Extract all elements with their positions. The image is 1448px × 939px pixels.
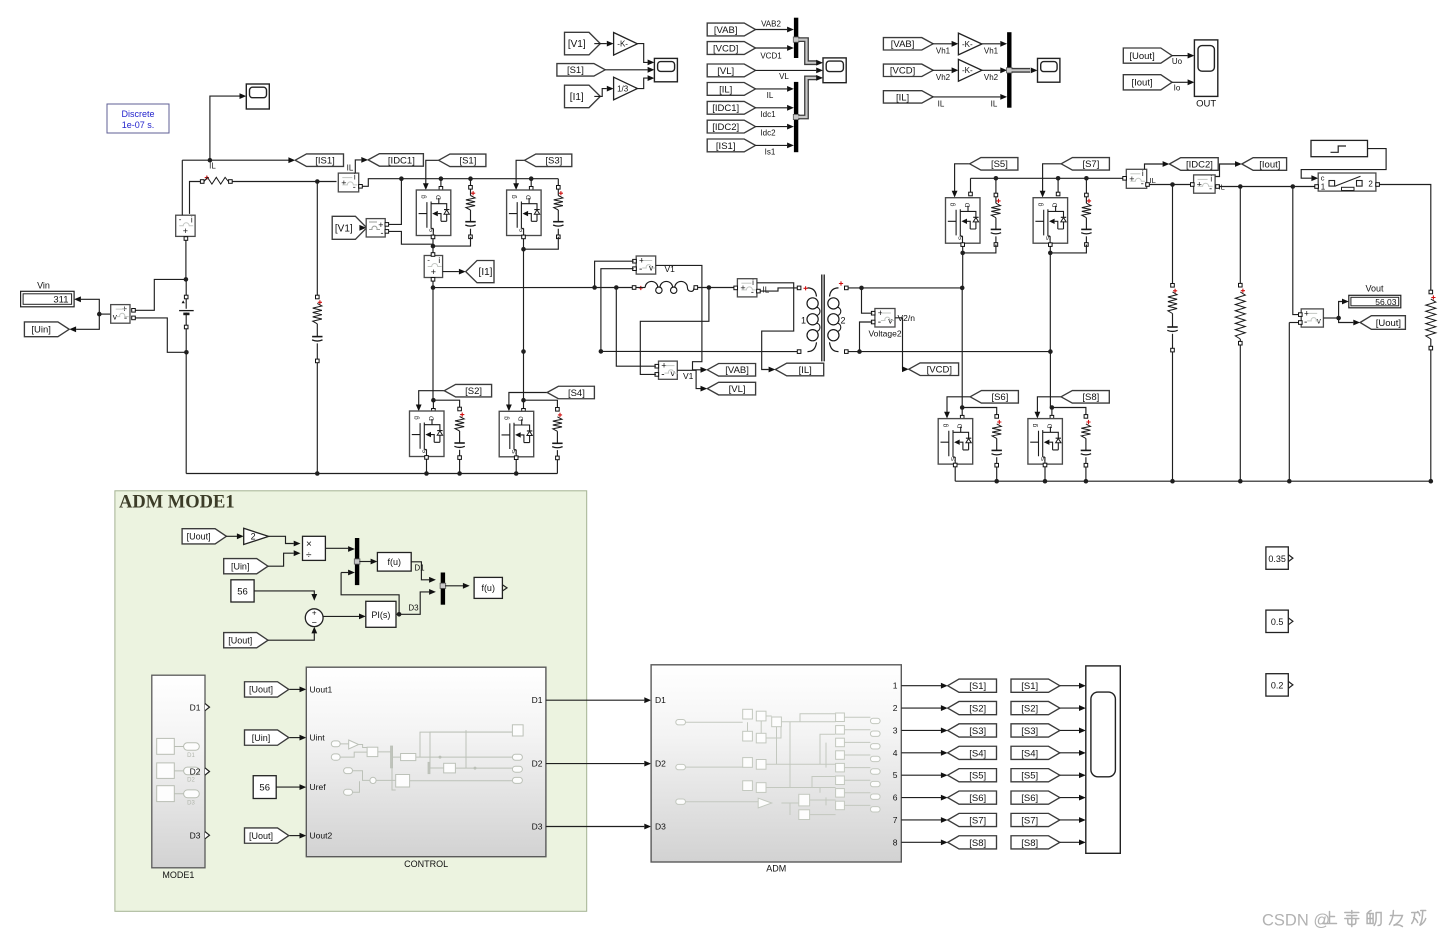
svg-text:D1: D1 xyxy=(190,702,201,712)
junction S1 source node A1 xyxy=(431,244,436,249)
junction S4 source bottom rail xyxy=(514,471,519,476)
wire node D down to S8 xyxy=(1049,352,1051,408)
svg-text:i: i xyxy=(191,216,193,225)
goto tag [S3] -> gate xyxy=(525,154,572,167)
from tag [S6] (to scope) xyxy=(1011,791,1060,804)
svg-text:[IL]: [IL] xyxy=(896,92,909,103)
svg-text:[Iout]: [Iout] xyxy=(1259,159,1280,170)
junction final load bottom xyxy=(1429,479,1434,484)
svg-text:[S2]: [S2] xyxy=(969,704,986,715)
wire Vout + tap xyxy=(1293,187,1299,315)
wire IL signal to tag xyxy=(757,283,794,370)
svg-text:[IDC1]: [IDC1] xyxy=(388,155,415,166)
svg-text:-: - xyxy=(381,228,384,238)
svg-text:7: 7 xyxy=(893,815,898,825)
svg-text:2: 2 xyxy=(1368,179,1373,188)
goto tag [IDC1] xyxy=(368,154,423,167)
svg-text:IL: IL xyxy=(938,100,945,109)
wire input rail to IDC1 meter xyxy=(232,181,336,183)
svg-text:[S3]: [S3] xyxy=(1021,726,1038,737)
wire S8 gate xyxy=(1037,397,1061,414)
goto tag [S4] (from ADM) xyxy=(948,746,997,759)
junction S7 source node xyxy=(1048,251,1053,256)
wire V1 - tap to node B rail xyxy=(601,269,634,352)
snubber RC S3 xyxy=(557,179,559,235)
junction node C xyxy=(960,286,965,291)
svg-text:[S5]: [S5] xyxy=(1021,771,1038,782)
display Vout (56.03) xyxy=(1349,295,1401,308)
wire ADM out 3 to goto [S3] xyxy=(901,729,941,731)
wire S5 gate xyxy=(955,164,970,193)
wire S8 source to output bottom rail xyxy=(1044,465,1046,481)
mux Mux3 (Vh1,Vh2,IL) xyxy=(1007,32,1013,108)
junction Uin signal xyxy=(97,312,102,317)
wire IS1 block to input resistor xyxy=(190,182,201,214)
wire S5 source to node C xyxy=(962,244,964,288)
svg-text:g: g xyxy=(420,195,427,199)
svg-text:[S8]: [S8] xyxy=(969,838,986,849)
gain -K- (V1) xyxy=(614,33,638,56)
svg-text:D1: D1 xyxy=(532,695,543,705)
svg-text:+: + xyxy=(1129,174,1134,184)
goto tag [S7] -> gate xyxy=(1061,158,1109,171)
MOSFET S8 xyxy=(1028,419,1063,465)
wire S4 source to bottom rail xyxy=(515,458,517,474)
goto tag [S3] (from ADM) xyxy=(948,724,997,737)
wire mux to f(u) xyxy=(359,561,371,563)
svg-text:-: - xyxy=(1304,317,1307,328)
wire input bottom rail xyxy=(186,473,557,475)
wire IL to mux xyxy=(932,96,1000,98)
goto tag [S2] (from ADM) xyxy=(948,701,997,714)
svg-text:0.35: 0.35 xyxy=(1268,554,1286,564)
step block (breaker control) xyxy=(1311,140,1368,156)
wire IS1 signal to Scope1 xyxy=(210,96,240,160)
dc source battery xyxy=(179,279,194,352)
svg-text:[S6]: [S6] xyxy=(969,793,986,804)
svg-text:MODE1: MODE1 xyxy=(162,870,194,880)
from tag [VAB] (Vh group) xyxy=(883,38,933,51)
from tag [Uin] (product) xyxy=(224,559,268,574)
wire S1 source to I1 meter xyxy=(432,236,434,254)
svg-text:+: + xyxy=(341,178,346,188)
from tag [VL] (mux group) xyxy=(707,64,755,77)
wire [IDC1] to mux xyxy=(755,107,787,109)
bus wire Mux3 to Scope3 xyxy=(1012,68,1031,73)
svg-text:[S5]: [S5] xyxy=(969,771,986,782)
MOSFET S2 xyxy=(410,411,445,457)
svg-text:f(u): f(u) xyxy=(481,583,495,593)
svg-text:Vh2: Vh2 xyxy=(936,73,951,82)
wire gain to scope in1 xyxy=(637,44,647,63)
snubber RC S6 xyxy=(995,415,999,419)
junction Voltage2 + tap xyxy=(859,286,864,291)
svg-text:[S6]: [S6] xyxy=(1021,793,1038,804)
junction Vout signal xyxy=(1336,316,1341,321)
current measurement IDC1/IL block xyxy=(338,173,358,193)
svg-text:V1: V1 xyxy=(683,371,694,381)
svg-text:-K-: -K- xyxy=(962,66,973,75)
svg-text:i: i xyxy=(1142,169,1144,178)
svg-text:Voltage2: Voltage2 xyxy=(868,329,901,339)
svg-text:IL: IL xyxy=(209,162,216,171)
from tag [S2] (to scope) xyxy=(1011,701,1060,714)
from tag [S8] (to scope) xyxy=(1011,836,1060,849)
wire Uin to CONTROL Uint xyxy=(290,737,300,739)
goto tag [S8] (from ADM) xyxy=(948,836,997,849)
gain 1/3 (I1) xyxy=(614,77,638,100)
svg-text:VL: VL xyxy=(779,72,789,81)
wire S4 gate xyxy=(509,393,547,407)
svg-text:D3: D3 xyxy=(408,604,419,613)
from tag [VCD] (Vh group) xyxy=(883,64,933,77)
constant 0.35 xyxy=(1266,547,1293,569)
wire IS1 block to battery xyxy=(185,237,187,280)
resistor R load (filter) xyxy=(1239,187,1241,284)
junction Vout - bottom xyxy=(1287,479,1292,484)
subsystem ADM xyxy=(651,665,901,862)
resistor R input series xyxy=(200,180,204,184)
svg-text:[I1]: [I1] xyxy=(570,92,584,103)
wire S2 gate xyxy=(419,391,445,407)
junction node A xyxy=(431,285,436,290)
svg-text:Vin: Vin xyxy=(37,281,50,291)
svg-text:56: 56 xyxy=(259,783,270,794)
voltage measurement V1 (VAB) xyxy=(636,256,656,276)
junction Voltage2 - tap xyxy=(857,349,862,354)
svg-text:PI(s): PI(s) xyxy=(371,610,390,620)
wire Iout to breaker xyxy=(1217,186,1315,188)
current measurement I1 xyxy=(424,256,442,278)
area box ADM MODE1 xyxy=(115,491,587,912)
from tag [Uin] -> Uint xyxy=(245,730,289,745)
svg-text:IL: IL xyxy=(763,286,770,295)
wire IS1 block to signal rail xyxy=(181,160,183,215)
svg-text:i: i xyxy=(752,278,754,287)
svg-text:[S5]: [S5] xyxy=(991,159,1008,170)
wire D rail (secondary bottom) xyxy=(848,351,1050,353)
wire S1 to scope in2 xyxy=(605,69,647,71)
wire voltage to Vin display xyxy=(81,299,99,314)
scope Scope2 (VAB/VCD/VL/I) xyxy=(823,58,846,83)
wire v- to battery - xyxy=(132,318,186,352)
wire V1 to gain xyxy=(594,43,607,45)
wire S3 gate xyxy=(516,160,524,185)
wire product to mux D1 xyxy=(325,547,348,549)
svg-text:[VAB]: [VAB] xyxy=(891,39,915,50)
goto tag [IS1] xyxy=(295,154,343,167)
wire ADM out 5 to goto [S5] xyxy=(901,774,941,776)
junction S6 snubber bottom xyxy=(994,479,999,484)
svg-text:1: 1 xyxy=(893,681,898,691)
goto tag [S8] -> gate xyxy=(1061,391,1109,404)
mux Mux1 (VAB2,VCD1) xyxy=(793,18,799,58)
junction V1 - on B rail xyxy=(599,349,604,354)
junction V1 source + xyxy=(399,176,404,181)
svg-text:[S7]: [S7] xyxy=(1082,159,1099,170)
wire S7 source to node D xyxy=(1049,244,1051,352)
svg-text:−: − xyxy=(312,617,317,627)
wire output bottom rail xyxy=(955,480,1431,482)
svg-text:D2: D2 xyxy=(532,758,543,768)
from tag [Iout] (OUT) xyxy=(1123,75,1172,90)
wire S2 source to bottom rail xyxy=(426,458,428,474)
voltage measurement V1 (VL) xyxy=(659,361,678,381)
svg-text:-K-: -K- xyxy=(617,40,628,49)
svg-text:g: g xyxy=(942,423,949,427)
wire mux2 to f(u)2 xyxy=(445,585,463,587)
junction output RC tap xyxy=(1170,182,1175,187)
svg-text:[S8]: [S8] xyxy=(1021,838,1038,849)
svg-text:[VCD]: [VCD] xyxy=(713,43,738,54)
svg-text:+: + xyxy=(312,608,317,617)
wire battery - down to bottom rail xyxy=(185,352,187,473)
svg-text:IL: IL xyxy=(767,91,774,100)
scope block gate signals xyxy=(1086,666,1121,853)
wire from [S3] to scope xyxy=(1060,729,1079,731)
svg-text:[S4]: [S4] xyxy=(969,748,986,759)
svg-text:[S3]: [S3] xyxy=(969,726,986,737)
inductor L1 xyxy=(632,286,636,290)
svg-text:[S7]: [S7] xyxy=(1021,815,1038,826)
wire from [S5] to scope xyxy=(1060,774,1079,776)
wire VL - tap xyxy=(640,288,709,375)
powergui block Discrete 1e-07 s. xyxy=(107,104,169,133)
gain 2 xyxy=(244,528,269,544)
wire 56 to CONTROL Uref xyxy=(276,786,299,788)
svg-text:[V1]: [V1] xyxy=(335,223,353,234)
svg-text:Uint: Uint xyxy=(310,733,326,743)
resistor R load (final) xyxy=(1429,290,1433,294)
junction load R bottom xyxy=(1238,479,1243,484)
wire IDC2 signal to tag xyxy=(1145,164,1163,169)
current measurement IDC2 xyxy=(1126,169,1146,189)
constant 0.2 xyxy=(1266,674,1293,696)
from tag [V1] (gate source) xyxy=(332,216,367,239)
svg-text:D2: D2 xyxy=(190,767,201,777)
current measurement IS1 (input) xyxy=(176,215,195,236)
wire CONTROL D2 to ADM D2 xyxy=(546,763,644,765)
svg-text:[S1]: [S1] xyxy=(1021,681,1038,692)
goto tag [VAB] xyxy=(707,364,755,377)
wire ADM out 7 to goto [S7] xyxy=(901,819,941,821)
junction IS1 signal node xyxy=(208,158,213,163)
wire S6 snubber top xyxy=(962,408,997,416)
svg-text:Uout2: Uout2 xyxy=(310,831,333,841)
svg-text:[Uin]: [Uin] xyxy=(252,733,271,743)
svg-text:D3: D3 xyxy=(190,830,201,840)
svg-text:Uref: Uref xyxy=(310,782,327,792)
junction RC output bottom xyxy=(1170,479,1175,484)
junction PI output xyxy=(397,612,402,617)
svg-text:i: i xyxy=(354,173,356,182)
svg-text:g: g xyxy=(510,195,517,199)
svg-text:D3: D3 xyxy=(187,801,195,807)
svg-text:D1: D1 xyxy=(414,563,425,572)
wire VAB to gain Vh1 xyxy=(932,43,951,45)
wire right bridge top rail xyxy=(971,177,1124,179)
svg-text:[S1]: [S1] xyxy=(969,681,986,692)
junction Vout + tap xyxy=(1291,184,1296,189)
wire from [S6] to scope xyxy=(1060,797,1079,799)
junction battery + node xyxy=(184,277,189,282)
svg-text:[IL]: [IL] xyxy=(719,84,732,95)
MOSFET S7 xyxy=(1033,198,1068,244)
from tag [S5] (to scope) xyxy=(1011,769,1060,782)
junction S4 drain node xyxy=(521,398,526,403)
wire Uout to sum - xyxy=(268,633,314,640)
junction S2 source bottom rail xyxy=(424,471,429,476)
junction S1 drain xyxy=(439,176,444,181)
junction S5 source node xyxy=(960,251,965,256)
wire IDC1 signal xyxy=(355,160,361,173)
voltage measurement Voltage2 xyxy=(875,308,895,328)
svg-text:IL: IL xyxy=(347,164,354,173)
from tag [Uout] -> Uout2 xyxy=(245,828,289,843)
from tag [Uout] -> Uout1 xyxy=(245,682,289,697)
wire CONTROL D1 to ADM D1 xyxy=(546,699,644,701)
svg-text:[VCD]: [VCD] xyxy=(890,66,915,77)
svg-text:1: 1 xyxy=(801,315,806,325)
wire S8 snubber top xyxy=(1052,408,1086,416)
wire node C down to S6 xyxy=(961,288,963,408)
goto tag [I1] xyxy=(466,261,494,283)
wire v-meter output xyxy=(101,313,111,315)
from tag [I1] (scope group) xyxy=(565,85,601,108)
svg-text:CONTROL: CONTROL xyxy=(404,859,448,869)
current measurement Iout xyxy=(1194,174,1216,193)
transformer T1 xyxy=(797,286,801,290)
svg-text:[Uout]: [Uout] xyxy=(1376,318,1401,329)
svg-text:[IDC2]: [IDC2] xyxy=(712,122,739,133)
svg-text:[Iout]: [Iout] xyxy=(1131,78,1152,89)
from tag [Uout] (gain2) xyxy=(182,529,226,544)
svg-text:[S6]: [S6] xyxy=(991,392,1008,403)
wire node A down to S2 drain xyxy=(432,288,434,401)
svg-text:÷: ÷ xyxy=(306,550,312,561)
svg-text:-: - xyxy=(878,317,881,328)
svg-text:Vout: Vout xyxy=(1365,284,1384,294)
svg-text:i: i xyxy=(1210,174,1212,183)
goto tag [IDC2] xyxy=(1169,158,1218,171)
junction S5 snubber xyxy=(994,176,999,181)
wire IS1 signal to goto tag xyxy=(182,159,288,161)
svg-text:-: - xyxy=(427,256,430,265)
wire source + to top rail xyxy=(389,179,402,225)
goto tag [S6] (from ADM) xyxy=(948,791,997,804)
svg-text:311: 311 xyxy=(53,295,68,306)
svg-text:i: i xyxy=(438,256,440,265)
svg-text:+: + xyxy=(183,226,188,236)
constant 56 #1 xyxy=(231,580,254,602)
junction S2 snubber bottom rail xyxy=(457,471,462,476)
svg-text:0.5: 0.5 xyxy=(1271,617,1284,627)
snubber RC S7 xyxy=(1085,178,1087,242)
svg-text:Vh1: Vh1 xyxy=(984,47,999,56)
goto tag [Uout] xyxy=(1360,316,1405,330)
from tag [IL] (Vh group) xyxy=(883,91,933,104)
svg-text:+: + xyxy=(1197,179,1202,189)
wire Voltage2 signal to VCD tag xyxy=(895,318,903,369)
scope Scope4 (V1/S1/I1) xyxy=(654,58,677,81)
svg-text:D2: D2 xyxy=(655,759,666,769)
wire from [S1] to scope xyxy=(1060,685,1079,687)
wire [IL] to mux xyxy=(755,88,787,90)
from tag [S4] (to scope) xyxy=(1011,746,1060,759)
svg-text:[Uin]: [Uin] xyxy=(31,325,51,336)
wire Uin to product xyxy=(268,553,294,566)
svg-text:CSDN @: CSDN @ xyxy=(1262,912,1330,930)
junction S1 snubber xyxy=(468,176,473,181)
wire gain 1/3 to scope in3 xyxy=(637,78,647,89)
gain -K- Vh2 xyxy=(958,59,982,81)
junction RC branch bottom xyxy=(315,471,320,476)
junction S6 drain node xyxy=(960,405,965,410)
svg-text:Idc2: Idc2 xyxy=(760,129,776,138)
svg-text:[S2]: [S2] xyxy=(1021,704,1038,715)
svg-text:-: - xyxy=(1209,183,1212,193)
wire sum to PI xyxy=(323,615,359,617)
wire I1 to node A xyxy=(432,278,434,288)
wire [VAB] to mux xyxy=(755,29,787,31)
wire Vh1 to mux xyxy=(982,43,1000,45)
svg-text:[VAB]: [VAB] xyxy=(725,365,749,376)
junction S8 drain node xyxy=(1050,405,1055,410)
svg-text:[Uout]: [Uout] xyxy=(249,685,273,695)
mux Mux2 (IL,Idc1,Idc2,Is1) xyxy=(793,82,799,152)
goto tag [VCD] xyxy=(909,363,959,376)
svg-text:ADM: ADM xyxy=(766,864,786,874)
junction S3 drain xyxy=(529,176,534,181)
from tag [S7] (to scope) xyxy=(1011,813,1060,826)
constant 56 #2 xyxy=(253,776,276,799)
wire ADM out 1 to goto [S1] xyxy=(901,685,941,687)
wire S4 snubber top xyxy=(524,400,558,408)
svg-text:[Uin]: [Uin] xyxy=(231,561,250,571)
svg-text:[VL]: [VL] xyxy=(717,66,734,77)
wire VL + tap xyxy=(616,288,656,367)
wire to S5 drain xyxy=(970,178,972,193)
gain -K- Vh1 xyxy=(958,33,982,55)
wire S7 gate xyxy=(1043,164,1062,193)
svg-text:D1: D1 xyxy=(655,695,666,705)
wire [VCD] to mux xyxy=(755,47,787,49)
svg-text:[S4]: [S4] xyxy=(1021,748,1038,759)
wire node A to inductor xyxy=(433,287,634,289)
from tag [V1] (scope group) xyxy=(565,32,601,55)
wire PI to mux2 D3 xyxy=(399,592,429,614)
mux2 (control) xyxy=(440,573,446,605)
wire from [S2] to scope xyxy=(1060,707,1079,709)
wire ADM out 8 to goto [S8] xyxy=(901,841,941,843)
from tag [Uout] (sum) xyxy=(224,633,268,648)
svg-text:2: 2 xyxy=(893,703,898,713)
wire left bridge top rail xyxy=(414,178,558,180)
svg-text:[VAB]: [VAB] xyxy=(714,25,738,36)
wire Uout to OUT xyxy=(1172,55,1188,57)
wire [IDC2] to mux xyxy=(755,126,787,128)
from tag [IL] (mux group) xyxy=(707,83,755,96)
goto tag [S1] -> gate xyxy=(439,154,486,167)
wire breaker out to load R xyxy=(1379,185,1430,291)
wire B rail (primary bottom) xyxy=(601,350,797,352)
wire I1 to gain 1/3 xyxy=(594,89,607,97)
svg-text:[S1]: [S1] xyxy=(459,156,476,167)
wire Voltage2 - tap xyxy=(860,322,873,352)
svg-text:D3: D3 xyxy=(532,822,543,832)
voltage measurement Vout xyxy=(1301,308,1323,328)
svg-text:VAB2: VAB2 xyxy=(761,20,781,29)
